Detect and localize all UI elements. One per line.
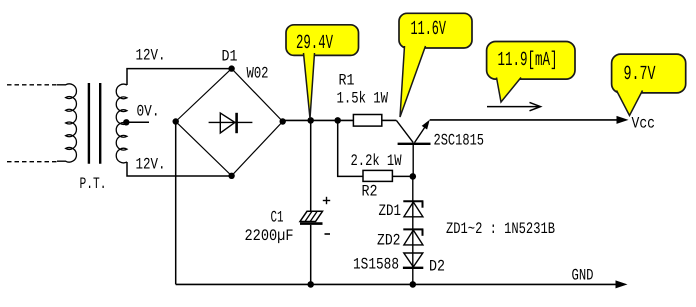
svg-text:ZD1: ZD1 (379, 202, 402, 220)
svg-text:ZD2: ZD2 (377, 232, 401, 250)
wire bridge left corner down to ground rail (175, 122, 177, 285)
svg-text:9.7V: 9.7V (624, 63, 656, 86)
resistor R1 body (353, 115, 381, 127)
callout balloon 9.7V (612, 54, 686, 115)
svg-text:R1: R1 (339, 72, 355, 90)
svg-text:Vcc: Vcc (632, 115, 656, 133)
svg-text:11.9[mA]: 11.9[mA] (498, 49, 558, 72)
svg-text:R2: R2 (362, 183, 378, 201)
wire secondary bottom tap to bridge bottom (127, 162, 232, 176)
transistor Q1 base lead down (412, 145, 414, 177)
callout balloon 11.9[mA] (487, 42, 575, 103)
transformer T1 primary winding (57, 84, 76, 162)
transformer T1 secondary winding (116, 84, 127, 163)
wire C1 to ground rail (310, 225, 312, 285)
transistor Q1 collector lead (396, 120, 413, 142)
arrow current direction 11.9mA (487, 102, 541, 110)
transistor Q1 base bar (398, 143, 431, 145)
svg-text:1S1588: 1S1588 (353, 256, 399, 274)
node rail junction to R2 (334, 117, 341, 124)
wire R2 branch from rail node (338, 120, 363, 176)
svg-text:GND: GND (572, 267, 594, 285)
svg-text:2.2k 1W: 2.2k 1W (351, 152, 402, 170)
transformer T1 core (89, 83, 100, 164)
wire C1 branch from rail (310, 120, 312, 211)
node ground rail zener junction (410, 281, 417, 288)
node bridge top corner (228, 65, 234, 71)
label C1 plus sign (323, 197, 330, 204)
arrow ground GND (616, 280, 628, 288)
svg-text:29.4V: 29.4V (296, 32, 333, 55)
transistor Q1 emitter lead with arrow (415, 120, 430, 143)
svg-text:D2: D2 (429, 258, 445, 276)
wire ground rail (176, 283, 617, 285)
callout balloon 29.4V (286, 25, 359, 119)
svg-text:12V.: 12V. (136, 156, 166, 174)
node rail junction to C1 (307, 117, 314, 124)
resistor R2 body (363, 170, 392, 181)
node bridge right corner (280, 118, 286, 124)
svg-text:W02: W02 (247, 65, 269, 83)
node base-R2-zener junction (410, 173, 417, 180)
svg-text:12V.: 12V. (136, 47, 166, 65)
bridge rectifier D1 diamond (176, 69, 283, 176)
svg-text:P.T.: P.T. (80, 175, 107, 193)
transformer T1 primary lead (bottom dashed wire) (7, 161, 57, 163)
wire DC positive rail from bridge to R1 (283, 119, 354, 121)
svg-text:D1: D1 (222, 48, 238, 66)
svg-text:11.6V: 11.6V (411, 18, 447, 41)
bridge rectifier D1 inner diode symbol (209, 113, 253, 133)
node bridge bottom corner (228, 173, 234, 179)
capacitor C1 positive plate (hatched) (300, 211, 323, 221)
wire R1 to collector corner (382, 119, 397, 121)
wire secondary top tap to bridge top (127, 69, 232, 85)
svg-text:C1: C1 (271, 209, 284, 227)
zener diode ZD1 (403, 201, 423, 217)
svg-text:1.5k 1W: 1.5k 1W (337, 90, 389, 108)
svg-text:2200µF: 2200µF (245, 227, 294, 245)
svg-text:2SC1815: 2SC1815 (434, 132, 485, 150)
arrow output Vcc (617, 116, 629, 124)
wire R2 to base node (392, 175, 412, 177)
diode D2 (403, 253, 423, 268)
label C1 minus sign (325, 233, 331, 235)
node bridge left corner (173, 118, 179, 124)
wire zener column from base node (412, 176, 414, 284)
svg-text:ZD1~2 : 1N5231B: ZD1~2 : 1N5231B (446, 220, 555, 238)
svg-text:0V.: 0V. (137, 103, 160, 121)
transformer T1 primary lead (top dashed wire) (7, 84, 57, 86)
zener diode ZD2 (403, 229, 423, 245)
node ground rail C1 junction (307, 281, 314, 288)
node center tap 0V stub (126, 121, 149, 123)
callout balloon 11.6V (399, 13, 472, 117)
capacitor C1 negative plate (300, 222, 323, 225)
wire output rail from emitter to Vcc arrow (430, 119, 618, 121)
node center tap junction dot (123, 119, 129, 125)
